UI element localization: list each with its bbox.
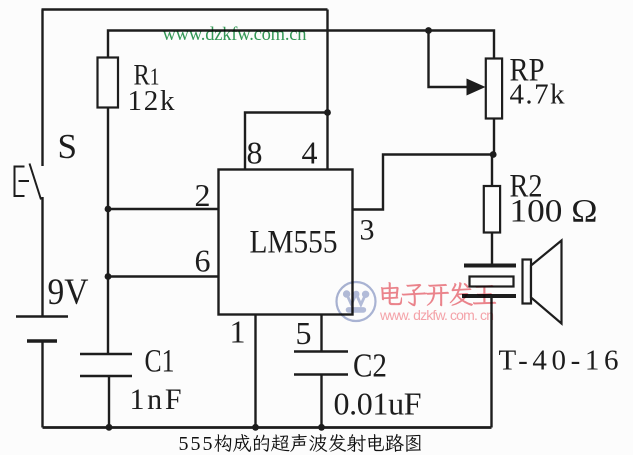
svg-text:4: 4 [302, 135, 318, 171]
wire: RP wiper arm [429, 31, 472, 88]
pin 3 number [360, 214, 375, 247]
ultrasonic transducer T-40-16 [462, 241, 562, 324]
switch S [15, 164, 42, 200]
label 0.01uF value [334, 386, 422, 422]
IC U1 LM555 [219, 170, 353, 315]
svg-text:3: 3 [360, 214, 375, 247]
wire: R1 top to RP top rail [108, 31, 494, 59]
wire: pin 5 to C2 [320, 314, 322, 352]
svg-text:LM555: LM555 [250, 225, 338, 261]
node: C2 ground [318, 424, 325, 431]
svg-text:9V: 9V [48, 272, 89, 313]
watermark: blue W logo [337, 282, 376, 321]
wire: C1 bottom to ground rail [108, 377, 110, 428]
wire: top rail (battery + to Vcc) [42, 8, 328, 10]
wire: pin 3 to RP/R2 junction [353, 155, 493, 210]
svg-text:2: 2 [195, 177, 211, 213]
svg-text:T-40-16: T-40-16 [499, 345, 619, 377]
caption: 555 ultrasonic transmitter circuit title [179, 433, 421, 455]
pin 5 number [296, 315, 312, 351]
wire: left rail from battery + up to top rail [41, 10, 43, 167]
pin 2 number [195, 177, 211, 213]
wire: pin 2 [108, 208, 219, 210]
wire: pin 6 [108, 275, 219, 277]
svg-text:www.dzkfw.com.cn: www.dzkfw.com.cn [163, 25, 307, 45]
potentiometer RP [467, 59, 503, 119]
wire: transducer bottom to ground rail [490, 298, 492, 428]
label R1 [134, 59, 160, 92]
svg-text:8: 8 [247, 135, 263, 171]
svg-text:4.7k: 4.7k [510, 79, 566, 111]
label T-40-16 [499, 345, 619, 377]
watermark: red site url [379, 307, 494, 323]
svg-text:555: 555 [179, 433, 213, 455]
wire: R2 bottom to transducer [491, 233, 493, 264]
svg-text:www. dzkfw. com. cn: www. dzkfw. com. cn [379, 307, 494, 323]
label 1nF value [130, 383, 182, 416]
svg-text:C2: C2 [353, 348, 387, 385]
wire: pins 8+4 bracket [245, 113, 328, 170]
wire: battery - to bottom rail [41, 342, 43, 428]
label 12k value [128, 85, 176, 117]
label R2 [510, 169, 543, 205]
node: RP/R2/pin3 junction [490, 151, 497, 158]
wire: bottom ground rail [43, 426, 492, 429]
capacitor C2 [294, 352, 348, 375]
svg-text:1nF: 1nF [130, 383, 182, 416]
svg-text:1: 1 [230, 314, 246, 350]
node: wiper tap on top rail [425, 27, 432, 34]
svg-text:S: S [58, 127, 78, 166]
node: C1 ground [106, 424, 113, 431]
label C2 [353, 348, 387, 385]
label RP [510, 53, 545, 89]
wire: Vcc drop to pin 8/4 bracket [326, 10, 328, 114]
pin 6 number [195, 243, 211, 279]
svg-text:6: 6 [195, 243, 211, 279]
wire: RP bottom to junction [493, 119, 495, 155]
resistor R1 [98, 58, 119, 108]
svg-text:100 Ω: 100 Ω [510, 194, 598, 230]
wire: C2 bottom to ground rail [320, 375, 322, 428]
node: Vcc at bracket [324, 109, 331, 116]
pin 8 number [247, 135, 263, 171]
wire: left rail switch to battery + [41, 197, 43, 316]
node: pin6/R1 [105, 273, 112, 280]
wire: R1 bottom to C1 top [107, 108, 109, 354]
svg-text:C1: C1 [145, 344, 175, 380]
label 100 ohm value [510, 194, 598, 230]
label C1 [145, 344, 175, 380]
label 9V battery [48, 272, 89, 313]
node: pin1 ground [252, 424, 259, 431]
watermark: red brand text [381, 282, 496, 306]
label 4.7k value [510, 79, 566, 111]
resistor R2 [484, 186, 500, 233]
label S switch [58, 127, 78, 166]
svg-text:12k: 12k [128, 85, 176, 117]
wire: junction to R2 top [491, 155, 493, 187]
wire: pin 1 to ground rail [254, 314, 256, 428]
battery 9V [16, 317, 68, 342]
pin 1 number [230, 314, 246, 350]
watermark: green site url top [163, 25, 307, 45]
pin 4 number [302, 135, 318, 171]
svg-text:5: 5 [296, 315, 312, 351]
capacitor C1 [80, 354, 132, 376]
svg-text:0.01uF: 0.01uF [334, 386, 422, 422]
node: pin2/R1 [105, 206, 112, 213]
